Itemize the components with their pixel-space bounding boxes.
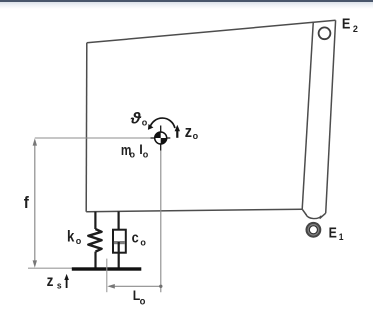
top border fade — [0, 2, 373, 9]
roller wheel E1 tire mid — [308, 224, 320, 236]
panel bottom edge — [86, 209, 302, 212]
svg-text:2: 2 — [353, 24, 358, 34]
roller mount bracket — [306, 214, 322, 218]
svg-text:o: o — [130, 149, 136, 159]
damper rod top — [117, 211, 119, 230]
svg-text:o: o — [142, 117, 148, 127]
f dimension arrow down — [33, 260, 37, 267]
ground bar — [72, 267, 142, 270]
L0 dimension arrowhead left — [107, 284, 115, 289]
svg-text:E: E — [342, 14, 351, 31]
L0 dimension line — [109, 285, 161, 287]
panel left edge — [85, 43, 88, 212]
CG vertical line down to L0 dimension — [160, 151, 162, 293]
roller wheel E1 hub center — [310, 226, 317, 233]
rotation arc theta — [150, 118, 175, 128]
svg-text:ϑ: ϑ — [130, 110, 143, 127]
svg-text:1: 1 — [339, 232, 344, 242]
svg-text:f: f — [24, 193, 30, 212]
svg-text:E: E — [329, 224, 337, 240]
f dimension arrow up — [33, 138, 37, 145]
CG crosshair horizontal tick — [151, 137, 171, 139]
z0 arrowhead — [175, 125, 180, 131]
svg-text:o: o — [143, 149, 149, 159]
panel top edge — [87, 20, 336, 43]
zs arrow shaft — [66, 279, 68, 288]
L0 left extension line — [106, 259, 108, 293]
svg-text:o: o — [193, 131, 199, 141]
top page border bar — [0, 0, 373, 2]
svg-text:s: s — [57, 280, 62, 290]
damper rod bottom — [118, 242, 120, 268]
svg-text:z: z — [185, 123, 192, 141]
CG symbol filled quadrant bottom-right — [161, 138, 167, 144]
svg-text:z: z — [47, 273, 54, 290]
spring coil k0 — [88, 229, 101, 252]
panel right outer edge — [326, 20, 336, 213]
strip bottom step left — [302, 209, 306, 215]
CG symbol filled quadrant top-left — [155, 132, 161, 138]
CG symbol circle — [155, 132, 167, 144]
roller wheel E1 rim ring — [309, 225, 318, 234]
svg-text:k: k — [67, 228, 75, 245]
rotation arc arrowhead — [148, 124, 154, 130]
svg-text:o: o — [76, 236, 82, 246]
f dimension line — [34, 142, 36, 265]
zs arrowhead — [64, 274, 69, 280]
hinge hole circle E2 — [319, 27, 331, 39]
roller wheel E1 tire outer — [306, 222, 322, 238]
spring rod top — [94, 212, 96, 229]
L0 right junction dot — [159, 285, 162, 288]
svg-text:o: o — [140, 237, 146, 247]
spring rod bottom — [94, 252, 96, 268]
z0 arrow shaft — [176, 130, 178, 138]
damper piston band — [114, 241, 125, 244]
svg-text:o: o — [140, 296, 146, 307]
f top reference line to CG — [35, 137, 151, 139]
strip bottom step right — [320, 213, 326, 218]
panel inner strip line — [302, 22, 313, 210]
svg-text:c: c — [132, 228, 139, 245]
CG crosshair vertical tick — [160, 126, 162, 151]
f bottom extension line — [28, 267, 75, 269]
damper cylinder c0 — [113, 230, 126, 253]
